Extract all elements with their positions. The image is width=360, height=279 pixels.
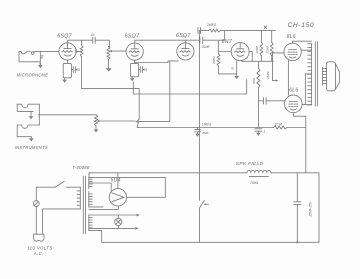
wire 6N7 cathode + ground bbox=[219, 61, 240, 79]
AC plug P1 bbox=[34, 234, 44, 241]
heater line 2 with arrow bbox=[89, 227, 139, 230]
wire V3 plate stub bbox=[184, 40, 186, 43]
svg-text:1MEG: 1MEG bbox=[202, 123, 212, 127]
svg-text:A.C.: A.C. bbox=[33, 251, 44, 256]
wire jacks to pot R6 bbox=[39, 114, 96, 116]
wire V1 plate-top to coupling cap bbox=[68, 40, 93, 44]
wire jack bus bbox=[38, 104, 40, 125]
wire AC leg 2 bbox=[43, 209, 81, 234]
svg-text:MICROPHONE: MICROPHONE bbox=[17, 73, 49, 78]
svg-text:6SQ7: 6SQ7 bbox=[125, 34, 140, 40]
wire bias bus y94 bbox=[133, 80, 246, 95]
wire V5 screen stub bbox=[301, 49, 311, 51]
wire right down leg bbox=[318, 173, 320, 243]
wire C1 to volume pot R2 bbox=[96, 40, 110, 46]
arrowhead into mixer junction bbox=[135, 119, 139, 123]
resistor R8 250M 6N7 grid bbox=[212, 40, 220, 74]
wire plate load down-right bbox=[82, 88, 140, 119]
svg-text:6SQ7: 6SQ7 bbox=[57, 34, 72, 40]
svg-text:25MF: 25MF bbox=[266, 71, 270, 80]
svg-text:250M: 250M bbox=[265, 45, 269, 54]
volume control pot R6 bbox=[94, 115, 100, 133]
wire V6 cathode to field line bbox=[293, 113, 306, 173]
wire OT center tap bbox=[305, 74, 311, 105]
resistor R5 V2 cathode (box) bbox=[130, 60, 138, 77]
wire 5U4 plate loop bbox=[89, 178, 166, 198]
svg-text:2M: 2M bbox=[74, 48, 78, 54]
mixer junction wires bbox=[137, 61, 170, 128]
capacitor C4 25 bbox=[139, 67, 148, 73]
T1 6.3V heater winding bbox=[89, 215, 92, 231]
wire to 6N7 grid bbox=[219, 51, 232, 53]
wire V2 cathode to V3 bbox=[135, 61, 179, 63]
tube V7 5U4 rectifier bbox=[109, 189, 126, 206]
capacitor C8 25MF filter bbox=[294, 173, 313, 244]
svg-text:SPK FIELD: SPK FIELD bbox=[236, 161, 264, 166]
power transformer T1 core bbox=[83, 176, 85, 233]
instrument jack J3 bbox=[17, 125, 39, 142]
instrument jack J2 bbox=[17, 104, 39, 119]
svg-text:750Ω: 750Ω bbox=[250, 181, 259, 185]
svg-text:INSTRUMENTS: INSTRUMENTS bbox=[15, 145, 48, 150]
capacitor C9 small near R7 bbox=[198, 28, 201, 34]
resistor R3 V1 cathode (box style) bbox=[63, 60, 71, 78]
resistor R10 250M plate load bbox=[265, 31, 273, 62]
svg-text:1MEG: 1MEG bbox=[207, 23, 217, 27]
svg-text:8MF: 8MF bbox=[202, 131, 208, 135]
resistor R12 10M bbox=[273, 122, 287, 129]
svg-text:6SQ7: 6SQ7 bbox=[176, 33, 191, 39]
tube V5 6L6 upper bbox=[284, 43, 301, 60]
svg-text:CH-150: CH-150 bbox=[288, 22, 315, 29]
svg-text:110 VOLTS: 110 VOLTS bbox=[27, 245, 52, 250]
wire 5U4 cathode to B+ bbox=[117, 173, 119, 189]
capacitor C6 .1 to ground bbox=[255, 101, 266, 136]
long dropper wire with switch S1 bbox=[199, 31, 208, 243]
wiper wire to V2 grid bbox=[112, 50, 127, 52]
tube V1 6SQ7 bbox=[59, 43, 76, 60]
svg-text:.02: .02 bbox=[90, 33, 95, 37]
svg-text:.1: .1 bbox=[263, 129, 266, 133]
wire 5U4 filament bbox=[89, 206, 119, 209]
svg-text:25: 25 bbox=[142, 68, 147, 72]
capacitor C3 .01MF coupling bbox=[200, 37, 211, 49]
svg-text:250M: 250M bbox=[212, 56, 216, 65]
heater line 1 with arrow bbox=[89, 214, 140, 217]
wire V6 plate to OT bbox=[302, 104, 312, 106]
capacitor C7 8MF to ground bbox=[195, 128, 209, 137]
volume control pot R2 bbox=[106, 46, 112, 71]
wire V5 grid bbox=[273, 52, 284, 54]
svg-text:5U4: 5U4 bbox=[111, 177, 121, 183]
wire V5 plate to OT bbox=[293, 41, 312, 43]
svg-text:50M: 50M bbox=[252, 78, 256, 84]
wire 5U4 plate 2 bbox=[89, 183, 111, 191]
T1 5V winding bbox=[89, 191, 92, 207]
wire grid feed V5 with arrow bbox=[266, 53, 278, 82]
fuse F1 bbox=[33, 187, 39, 234]
long wire y127 feedback/bias bbox=[137, 127, 306, 129]
wire 6N7 plate to bus bbox=[249, 52, 252, 62]
tube V3 6SQ7 bbox=[177, 43, 194, 60]
wire B+ rail top bbox=[224, 26, 275, 40]
resistor R11 50M below bus bbox=[252, 61, 260, 101]
tube V4 6N7 bbox=[231, 43, 249, 61]
wiper wire to mixer bbox=[99, 120, 135, 122]
tube V6 6L6 lower bbox=[285, 95, 303, 113]
resistor R7 1MEG bbox=[199, 23, 224, 32]
pilot lamp DS1 bbox=[115, 215, 122, 228]
wire B+ line bbox=[89, 173, 319, 177]
svg-text:.01MF: .01MF bbox=[201, 45, 211, 49]
output transformer core bbox=[315, 42, 317, 106]
ground V1 cathode bbox=[62, 78, 67, 83]
svg-text:6L6: 6L6 bbox=[289, 88, 298, 94]
speaker SP bbox=[322, 62, 339, 91]
wire heater CT to ground bus bbox=[89, 230, 102, 242]
output transformer T2 primary bbox=[308, 44, 312, 105]
switch S2 AC bbox=[36, 181, 80, 187]
capacitor C1 .02 bbox=[90, 33, 95, 43]
speaker field coil L1 bbox=[247, 170, 271, 176]
wire V5 cathode down bbox=[287, 60, 289, 95]
svg-text:100M: 100M bbox=[255, 45, 259, 53]
tube V2 6SQ7 bbox=[126, 43, 143, 60]
microphone input jack bbox=[19, 51, 43, 68]
svg-text:25: 25 bbox=[231, 66, 235, 71]
ground V2 cathode bbox=[130, 77, 135, 82]
T1 primary winding bbox=[77, 187, 80, 209]
svg-text:T-40088: T-40088 bbox=[72, 165, 90, 170]
wire V2 plate-top rail bbox=[135, 40, 225, 43]
wire plate bus bbox=[242, 60, 274, 62]
capacitor C2 25 bbox=[71, 67, 80, 73]
resistor R9 100M plate load bbox=[255, 31, 263, 62]
svg-text:10 M: 10 M bbox=[275, 122, 283, 126]
svg-text:25MF 25V: 25MF 25V bbox=[309, 201, 313, 218]
svg-text:6N7: 6N7 bbox=[222, 39, 233, 45]
svg-text:6L6: 6L6 bbox=[287, 34, 296, 40]
capacitor C5 coupling to V6 bbox=[258, 98, 284, 104]
resistor R1 V1 plate load bbox=[74, 40, 83, 88]
wire jack to V1 grid bbox=[34, 50, 59, 52]
T1 HV secondary winding bbox=[89, 177, 92, 189]
svg-text:25: 25 bbox=[75, 68, 80, 72]
wire ground bus bottom bbox=[102, 241, 319, 243]
